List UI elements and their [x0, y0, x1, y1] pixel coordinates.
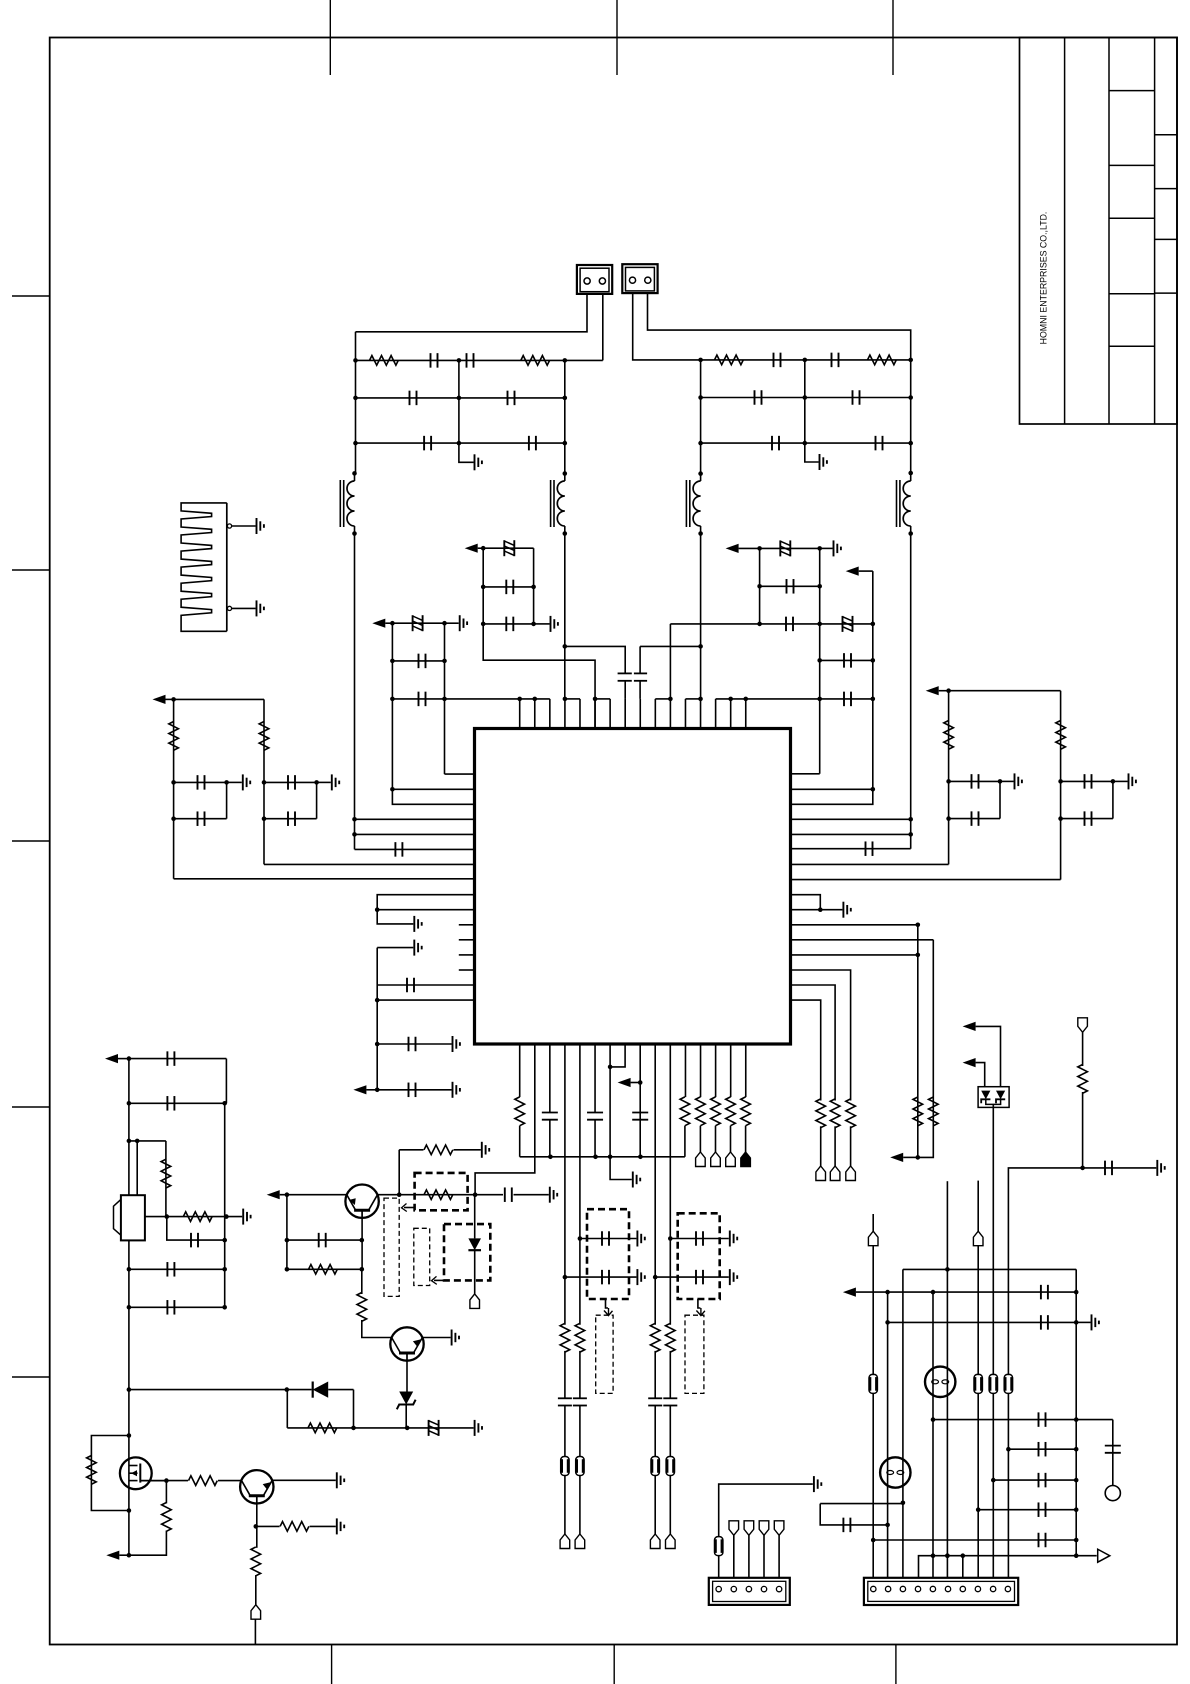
arrow net B: [372, 619, 392, 628]
arrow net M: [106, 1551, 129, 1560]
resistor R-L2: [521, 356, 550, 366]
capacitor C-L2a row: [264, 775, 319, 790]
resistor R-X2: [183, 1212, 212, 1222]
node A1: [481, 546, 486, 551]
capacitor C-B1 row: [390, 654, 447, 669]
resistor R-RC3: [846, 1099, 856, 1128]
terminal flag KT4: [666, 1534, 676, 1549]
pin IC top 9: [639, 699, 641, 729]
capacitor C-F2 row: [563, 1270, 637, 1285]
resistor R-RD2: [929, 1097, 939, 1126]
wire colB9: [639, 1044, 641, 1157]
wire heatsink pin1 to ground: [232, 518, 264, 534]
wire Q1e col: [286, 1195, 288, 1270]
wire K3 lower: [654, 1406, 656, 1457]
wire row1000 to IC: [375, 998, 475, 1003]
wire CN1 pin2 to row1L: [602, 294, 604, 360]
resistor R-K3: [650, 1323, 660, 1352]
wire R-F3 tail: [730, 1126, 732, 1152]
capacitor C-R6: [876, 436, 883, 451]
resistor R-F2: [711, 1097, 721, 1126]
capsule F2: [974, 1374, 982, 1393]
wire colB2 to Q1: [475, 1054, 535, 1195]
arrow net L: [153, 695, 174, 704]
resistor R-RC2: [830, 1099, 840, 1128]
wire left vertical R: [700, 360, 702, 474]
pin IC left stub 970: [459, 969, 475, 971]
wire colB4 long: [564, 1044, 566, 1325]
frame tick bottom 1: [331, 1645, 333, 1684]
resistor R-Q1a: [424, 1145, 453, 1155]
ground net Q1c: [550, 1187, 557, 1203]
node C2: [817, 546, 822, 551]
capacitor C-BR1: [1039, 1412, 1046, 1427]
wire col978 upper: [977, 1181, 979, 1232]
wire B right to IC pin: [445, 773, 475, 775]
capacitor C-G row985: [377, 978, 474, 993]
node RF1: [1080, 1166, 1085, 1171]
capacitor C-L2: [467, 353, 474, 368]
capacitor C-BR6: [1039, 1533, 1046, 1548]
wire row1509: [978, 1509, 1076, 1511]
dashed box F: [587, 1209, 629, 1299]
wire row834 to IC: [355, 833, 475, 835]
svg-text:HOMNI ENTERPRISES CO.,LTD.: HOMNI ENTERPRISES CO.,LTD.: [1039, 212, 1049, 345]
node B2: [442, 621, 447, 626]
wire colB1 to rail: [519, 1126, 521, 1157]
wire col933 down2: [931, 1292, 936, 1578]
row3L wire y=443.1: [356, 442, 565, 444]
terminal flag F2: [711, 1152, 721, 1167]
arrow net RD: [890, 1153, 920, 1162]
node M1: [127, 1478, 169, 1513]
resistor R-Q3a: [280, 1522, 309, 1532]
resistor R-L1: [370, 356, 399, 366]
node T4 col row834: [908, 832, 913, 837]
capacitor C-L4: [508, 391, 515, 406]
resistor R-L2v: [259, 722, 269, 751]
ground net P: [475, 1420, 482, 1436]
resistor R-M1: [87, 1456, 97, 1485]
wire row1419: [933, 1419, 1113, 1421]
wire row1L-row3L left vertical: [355, 332, 357, 474]
arrow net B9: [618, 1078, 643, 1087]
resistor R-B1v: [515, 1097, 525, 1126]
wire rail segment S5: [685, 698, 700, 700]
node M2: [127, 1553, 132, 1558]
capacitor C-F1 row: [578, 1231, 637, 1246]
node rail dots: [548, 1155, 643, 1160]
indicator circle LP1: [1105, 1486, 1120, 1501]
capacitor C-C4 row: [817, 692, 875, 707]
arrow net Q1e: [267, 1190, 347, 1199]
heatsink pin 1 circle: [227, 524, 231, 528]
wire col873 mid: [872, 1246, 874, 1375]
wire Q3 base: [240, 1480, 243, 1482]
capsule K2: [576, 1457, 584, 1476]
capacitor C-NL1: [1041, 1285, 1048, 1300]
wire R-F2 tail: [715, 1126, 717, 1152]
resistor R-F3: [726, 1097, 736, 1126]
wire B left to IC pin: [390, 787, 474, 792]
ground net RF1: [1157, 1160, 1164, 1176]
ground net L2: [317, 774, 340, 790]
pin IC top 3: [549, 699, 551, 729]
dashed box B1: [415, 1173, 468, 1210]
wire CN1 pin1 to left network: [356, 294, 588, 332]
row1R wire y=359.9: [701, 359, 911, 361]
wire IC pin789 to colC: [791, 787, 876, 792]
wire C col820 vertical: [819, 548, 821, 773]
dashed box B4: [444, 1224, 490, 1280]
wire Q1 res row: [285, 1267, 365, 1272]
wire A row: [483, 547, 533, 549]
wire pin954R row: [791, 953, 921, 958]
frame tick top 2: [616, 0, 618, 75]
wire colB2 upper: [534, 1044, 536, 1054]
node S3 junction: [593, 697, 598, 702]
wire pin939R row: [791, 939, 934, 941]
ground row3L: [459, 443, 482, 470]
wire rail segment S6 row: [716, 698, 820, 700]
wire col978 lower: [976, 1393, 981, 1577]
node T1 col row819: [352, 817, 357, 822]
wire row1502 left: [820, 1503, 903, 1505]
capacitor C-R4: [853, 390, 860, 405]
ground net E: [1113, 773, 1136, 789]
ground net X1: [226, 1209, 250, 1225]
capacitor C-E1 row: [1061, 774, 1116, 789]
node x377 row909: [375, 907, 380, 912]
capacitor C-BR3: [1039, 1442, 1046, 1457]
wire T2 column to IC: [563, 534, 568, 699]
wire col902 down: [901, 1269, 906, 1577]
capacitor C-R2: [832, 353, 839, 368]
capacitor C-C1 row: [757, 579, 822, 594]
wire C row1: [760, 547, 820, 549]
ground net B7: [610, 1157, 640, 1188]
wire D1 loop left: [286, 1390, 288, 1428]
wire col1112: [1112, 1420, 1114, 1486]
wire pin1000R route: [791, 1000, 821, 1100]
node T1 col row834: [352, 832, 357, 837]
capacitor C-T2 (IC top center): [634, 673, 647, 699]
wire opto exit center: [992, 1104, 994, 1375]
wire col1076 down: [1075, 1269, 1077, 1555]
wire C right vertical: [872, 571, 874, 789]
wire R-F4 tail: [745, 1126, 747, 1152]
wire C col820 to IC pin: [791, 773, 820, 775]
wire rail segment S2: [565, 698, 580, 700]
pin IC top 13: [700, 699, 702, 729]
wire colB5 long: [579, 1044, 581, 1325]
ferrite bead FB-B: [413, 615, 423, 631]
optocoupler U2 box: [978, 1087, 1009, 1108]
wire CN3 pin5: [778, 1535, 780, 1578]
wire X row1140: [127, 1139, 166, 1144]
wire E vertical: [1060, 691, 1062, 880]
wire colB12 to rail: [684, 1126, 686, 1157]
capacitor C-K1v: [558, 1398, 572, 1405]
wire CN2 pin1 to row1R: [633, 293, 701, 360]
neon lamp NE2: [880, 1457, 910, 1487]
resistor R-F1: [696, 1097, 706, 1126]
arrow into B2: [402, 1204, 415, 1212]
resistor R-P1: [308, 1423, 337, 1433]
mosfet gate loop: [91, 1436, 128, 1511]
dashed box B2: [384, 1198, 399, 1296]
wire Q3b tail: [255, 1575, 257, 1605]
arrow into box G2: [696, 1299, 705, 1316]
wire L2 inner vertical: [316, 782, 318, 818]
capacitor C-R5: [772, 436, 779, 451]
wire K2 tail: [579, 1476, 581, 1535]
capacitor C-G1 row: [668, 1231, 729, 1246]
terminal flag CN3-4: [759, 1521, 769, 1536]
node T4 col row819: [908, 817, 913, 822]
node S1 junctions: [517, 697, 537, 702]
node row2R junctions: [698, 395, 913, 400]
capacitor C-NL2: [1041, 1315, 1048, 1330]
wire L2 rail to IC pin864: [264, 863, 475, 865]
wire C row y=623.9: [670, 623, 872, 625]
wire opto internal: [986, 1099, 1001, 1104]
wire Q3 right to ground: [272, 1472, 344, 1488]
node S4 junction: [668, 697, 673, 702]
resistor R-M3: [162, 1503, 172, 1532]
wire CN3 pin1 to ground: [719, 1476, 822, 1537]
wire rail segment S3: [595, 698, 610, 700]
pin IC bottom 1: [519, 1044, 521, 1097]
node row1555 dots: [931, 1553, 965, 1558]
row2R wire y=397.5: [701, 397, 911, 399]
frame tick top 1: [329, 0, 331, 75]
arrow net AR2: [353, 1085, 379, 1094]
ground net F1: [637, 1231, 644, 1247]
heatsink pin 2 circle: [227, 606, 231, 610]
arrow net A: [465, 544, 484, 553]
dashed box B3: [414, 1228, 430, 1285]
pin IC left stub 939: [459, 939, 475, 941]
node row3L junctions: [353, 441, 567, 446]
node Q1c dots: [397, 1192, 478, 1197]
wire CN3 pin4: [763, 1535, 765, 1578]
node S6 junctions: [728, 697, 748, 702]
crystal Y1 lead2: [136, 1141, 138, 1195]
capacitor C-W1 row849: [355, 842, 475, 857]
wire colQ1 up: [398, 1150, 400, 1195]
wire M col166: [165, 1481, 167, 1504]
ground net AR1: [453, 1036, 460, 1052]
node S5 junction: [698, 697, 703, 702]
terminal flag RF1: [1078, 1018, 1088, 1033]
terminal flag K1: [868, 1231, 878, 1246]
wire to Q2: [362, 1320, 392, 1338]
wire T3 column to IC: [698, 534, 703, 699]
pin IC bottom 16: [745, 1044, 747, 1097]
wire X main col: [128, 1059, 130, 1556]
resistor R-K4: [666, 1323, 676, 1352]
wire right vertical L: [564, 360, 566, 473]
wire rail segment S4: [655, 698, 670, 700]
wire E return to IC pin: [791, 879, 1061, 881]
terminal flag K2: [973, 1231, 983, 1246]
capacitor C-AR1 row: [377, 1037, 451, 1052]
pin IC bottom 15: [730, 1044, 732, 1097]
arrow into box F2: [604, 1299, 613, 1316]
capsule K1: [561, 1457, 569, 1476]
node C3: [871, 622, 876, 627]
capacitor C-L5: [424, 436, 431, 451]
pin IC top 14: [715, 699, 717, 729]
capacitor C-RF1 row: [1083, 1161, 1157, 1176]
ground net R909: [820, 902, 851, 918]
resistor R-B12v: [680, 1097, 690, 1126]
frame tick left 5: [12, 1376, 50, 1378]
wire heatsink pin2 to ground: [232, 600, 264, 616]
terminal flag RC1: [816, 1166, 826, 1181]
wire X row1216: [144, 1214, 229, 1219]
transistor Q2: [390, 1327, 423, 1360]
resistor R-R2: [868, 355, 897, 365]
ferrite bead FB-C2: [843, 616, 853, 632]
connector CN2 (2-pin): [622, 264, 657, 293]
resistor R-Q1e: [309, 1265, 338, 1275]
wire L1 rail to IC pin879: [174, 878, 475, 880]
capacitor C-L1a row: [174, 775, 229, 790]
arrow net D: [926, 686, 949, 695]
diode D2 in B4: [468, 1195, 481, 1294]
capacitor C-Q1b row: [285, 1233, 365, 1248]
wire colB10 long: [654, 1044, 656, 1325]
wire pin894 loop: [377, 895, 474, 910]
node ar1044: [375, 1042, 380, 1047]
capacitor C-B9v: [632, 1113, 648, 1120]
node L1 row782: [171, 780, 176, 785]
wire K4 lower: [669, 1406, 671, 1457]
pin IC top 10: [654, 699, 656, 729]
wire row1449: [1008, 1448, 1076, 1450]
ferrite bead FB-P: [429, 1420, 439, 1436]
frame tick left 1: [12, 295, 50, 297]
wire X right col lower: [224, 1103, 226, 1307]
dashed box G2: [685, 1315, 704, 1393]
wire Q2 right to ground: [422, 1330, 459, 1346]
wire row y646 left: [565, 646, 625, 673]
connector CN1 (2-pin): [577, 265, 612, 294]
resistor R-X1v: [161, 1159, 171, 1188]
wire M col166 tail: [129, 1531, 167, 1556]
wire row1427: [287, 1427, 473, 1429]
wire row819R to IC: [791, 818, 911, 820]
node E1: [1058, 779, 1063, 784]
resistor R-L1v: [169, 722, 179, 751]
node D1: [946, 688, 951, 693]
node P3: [351, 1426, 356, 1431]
pin IC top 5: [579, 699, 581, 729]
wire K4 tail: [669, 1476, 671, 1535]
capacitor C-K2v: [573, 1398, 587, 1405]
wire L2 vertical: [263, 699, 265, 864]
capacitor C-B2 on rail: [390, 692, 447, 707]
ground row3R: [805, 443, 827, 470]
wire pin894R loop: [791, 895, 821, 910]
wire T4 column down: [910, 534, 912, 849]
node P1: [127, 1387, 132, 1392]
wire E loop: [1112, 781, 1114, 818]
wire pin985R route: [791, 985, 836, 1101]
wire col933 down: [918, 940, 934, 1158]
node B1: [390, 621, 395, 626]
ground net Q3a: [337, 1518, 344, 1534]
resistor R-F4: [741, 1097, 751, 1126]
capacitor C-X3: [191, 1233, 198, 1248]
resistor R-RD1: [913, 1097, 923, 1126]
capacitor C-BL1: [843, 1518, 850, 1533]
capsule K3: [651, 1457, 659, 1476]
pin IC top 15: [730, 699, 732, 729]
wire K3 mid: [654, 1351, 656, 1398]
capacitor C-W4 row849: [791, 841, 911, 856]
pin IC top 4: [564, 699, 566, 729]
wire R-RC2 tail: [834, 1126, 836, 1166]
capacitor C-T1 (IC top center): [618, 673, 632, 699]
wire M row: [166, 1480, 240, 1482]
wire Q3 emitter down: [255, 1504, 258, 1548]
pin IC top 16: [745, 699, 747, 729]
wire X cap row1240: [167, 1217, 227, 1243]
diode D-OP1: [981, 1091, 990, 1104]
wire col1008 lower: [1006, 1393, 1011, 1577]
zener D3: [397, 1392, 416, 1428]
row1L wire y=360.4: [356, 359, 603, 361]
wire R-RC3 tail: [850, 1126, 852, 1166]
terminal flag CN3-2: [729, 1521, 739, 1536]
inductor T3 winding: [686, 471, 702, 535]
wire pin7 stub: [962, 1556, 964, 1578]
capacitor C-BR4: [1039, 1473, 1046, 1488]
wire C left vertical: [759, 548, 761, 624]
wire K2 lower: [579, 1406, 581, 1457]
pin IC top 8: [624, 699, 626, 729]
terminal flag CN3-5: [774, 1521, 784, 1536]
pin IC left stub 924: [459, 924, 475, 926]
connector CN3 (5-pin): [709, 1578, 790, 1605]
capacitor C-L6: [529, 436, 536, 451]
wire L1 inner vertical: [226, 782, 228, 818]
title block: [1020, 38, 1178, 425]
ground net NL2: [1076, 1314, 1099, 1330]
wire col947 down: [945, 1269, 950, 1577]
inductor T2 winding: [551, 471, 568, 536]
ground net D: [1000, 773, 1022, 789]
ground net A: [534, 616, 558, 632]
frame tick left 2: [12, 569, 50, 571]
capacitor C-BR2v: [1105, 1446, 1121, 1453]
wire pin909R row: [791, 909, 821, 911]
arrow net X1: [105, 1054, 129, 1063]
frame tick left 4: [12, 1106, 50, 1108]
ground net G1: [730, 1231, 737, 1247]
wire R-Q1a row: [399, 1149, 481, 1151]
node Q3e: [254, 1524, 259, 1529]
wire Q1c row right: [514, 1194, 549, 1196]
node P4: [405, 1426, 410, 1431]
wire K3 tail: [654, 1476, 656, 1535]
wire pin909 row: [377, 909, 474, 911]
capacitor C-AR2 row: [377, 1083, 451, 1098]
resistor R-R1: [715, 355, 744, 365]
